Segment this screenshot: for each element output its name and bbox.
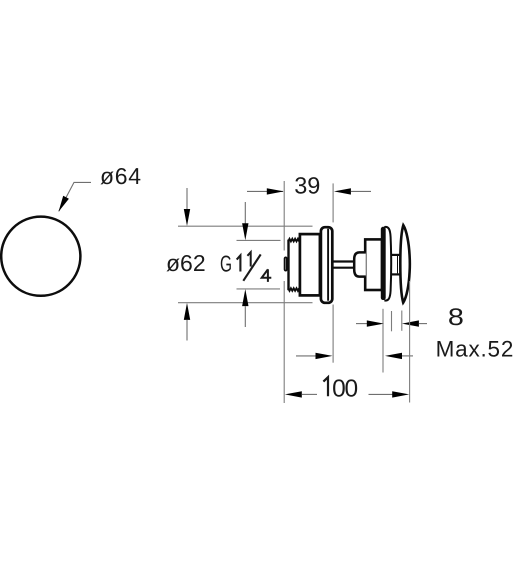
mounting tab [285, 257, 287, 270]
G1 1/4 top extension line (thread top) [237, 239, 281, 241]
cap dome [400, 225, 410, 302]
thread top teeth [288, 239, 299, 242]
leader line ø64 [59, 182, 91, 211]
dimension Max.52 right arrow [385, 353, 402, 359]
neck inner edge line [397, 256, 399, 273]
svg-text:8: 8 [448, 304, 464, 331]
leader arrowhead [59, 196, 69, 212]
neck bottom line [391, 273, 400, 275]
svg-text:39: 39 [294, 173, 320, 199]
dimension 8 right arrow [402, 320, 419, 326]
ø62 top arrow [186, 188, 188, 211]
extension line flange face (Max.52 left) [332, 305, 334, 363]
cap circle front view ø64 [1, 217, 80, 296]
thread bottom teeth [288, 288, 299, 291]
valve body [300, 234, 320, 295]
barrel cylinder [365, 239, 382, 290]
dimension 100 right arrow [369, 393, 393, 395]
extension line disc face [391, 311, 393, 331]
svg-text:ø64: ø64 [100, 163, 142, 189]
seal disc profile [384, 227, 391, 301]
G1 1/4 bottom extension line (thread bottom) [237, 288, 281, 290]
G1 1/4 bottom arrow [242, 289, 248, 306]
ø62 bottom extension line (flange bottom) [178, 302, 313, 304]
thread left edge [287, 240, 289, 291]
flange [321, 227, 332, 303]
dimension Max.52 left arrow [296, 355, 316, 357]
svg-text:G: G [220, 250, 232, 276]
svg-text:00: 00 [332, 375, 357, 402]
extension line plate face (8 left / Max.52 right) [382, 309, 384, 373]
label 100 [323, 377, 328, 396]
stem top line [333, 260, 355, 262]
neck top line [391, 254, 400, 256]
label fraction 1/4 numerator [247, 252, 250, 266]
seal plate (edge view) [381, 227, 386, 300]
flange inner edge line [327, 229, 329, 301]
ø62 bottom arrow [184, 303, 190, 320]
G1 1/4 top arrow [244, 202, 246, 225]
extension line dome face [401, 311, 403, 331]
dimension 39 left arrow [247, 190, 283, 192]
label fraction 1/4 denominator [262, 269, 272, 282]
label fraction slash [243, 254, 260, 280]
extension line left (thread start, x=284) [283, 181, 285, 251]
dimension 8 left arrow [356, 323, 368, 325]
svg-text:ø62: ø62 [166, 250, 206, 276]
extension line flange right face (39 dim) [332, 183, 334, 222]
dimension 100 left arrow [285, 391, 302, 397]
dimension 39 right arrow [334, 188, 351, 194]
svg-text:Max.52: Max.52 [436, 337, 515, 362]
stem bottom line [333, 267, 355, 269]
ø62 top extension line (flange top) [178, 225, 313, 227]
extension line dome tangent (100 right) [409, 281, 411, 403]
stem nut (bullet) [354, 252, 366, 276]
